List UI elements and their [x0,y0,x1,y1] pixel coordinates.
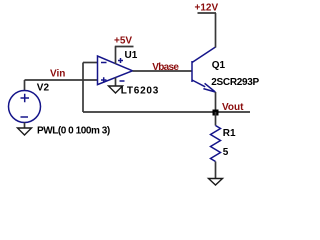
svg-text:Vin: Vin [50,69,65,80]
power flag +5V bar [115,46,134,48]
wire feedback top into inverting input [83,62,98,64]
ground below R1 [209,179,223,186]
power flag +12V bar [198,12,217,14]
wire Vout horizontal [83,111,250,113]
op-amp U1 [98,56,133,85]
wire V2 top vertical [24,80,26,91]
wire op-amp output to base (node Vbase) [133,70,193,72]
wire emitter vertical [215,92,217,112]
svg-text:R1: R1 [223,128,236,139]
wire collector vertical [215,13,217,48]
svg-text:5: 5 [223,147,229,158]
svg-text:U1: U1 [125,50,138,61]
ground below V2 [18,128,32,135]
wire op-amp V+ supply [115,47,117,65]
svg-text:Vout: Vout [222,102,244,113]
svg-text:2SCR293P: 2SCR293P [211,77,259,88]
wire feedback vertical [82,63,84,113]
svg-text:+5V: +5V [114,36,132,47]
node junction Vout (solder dot) [213,110,219,116]
wire Vin horizontal [25,79,98,81]
ground below op-amp [109,86,123,93]
voltage source V2 [9,91,41,123]
svg-text:LT6203: LT6203 [121,86,159,97]
svg-text:Q1: Q1 [212,60,226,71]
wire op-amp V- supply [115,78,117,87]
svg-text:+12V: +12V [195,3,219,14]
resistor R1 [211,126,221,162]
wire V2 bottom stub [24,123,26,129]
wire resistor bottom stub [215,162,217,179]
svg-text:Vbase: Vbase [152,62,179,73]
svg-text:V2: V2 [37,83,50,94]
transistor Q1 [192,47,216,92]
svg-text:PWL(0 0 100m 3): PWL(0 0 100m 3) [37,126,110,137]
wire resistor top stub [215,112,217,126]
